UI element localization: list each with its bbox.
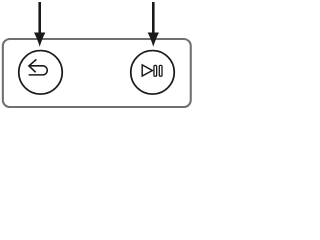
right button circle xyxy=(131,51,175,95)
left arrow (pointer) shaft xyxy=(38,2,41,34)
pause bar 2 xyxy=(159,65,162,76)
right arrow (pointer) head xyxy=(148,33,159,47)
return icon shaft and u-turn xyxy=(29,66,48,75)
left button circle xyxy=(19,51,63,95)
panel: rounded rectangle remote face xyxy=(3,39,191,107)
play triangle xyxy=(142,65,152,76)
left arrow (pointer) head xyxy=(34,33,45,47)
return icon chevron xyxy=(29,59,37,72)
pause bar 1 xyxy=(154,65,157,76)
right arrow (pointer) shaft xyxy=(152,2,155,34)
